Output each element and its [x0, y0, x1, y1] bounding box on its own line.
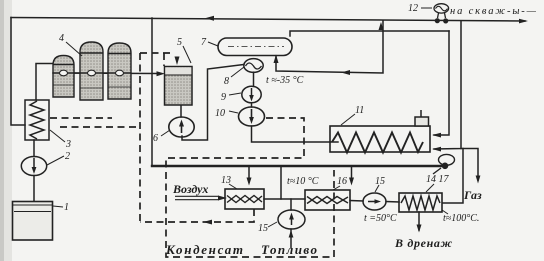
- arrow left into evaporator 11 cap level: [432, 133, 441, 138]
- svg-text:15: 15: [375, 176, 385, 187]
- wire pump 6 U-pipe up to cooler 8: [182, 65, 244, 141]
- leader line label 10: [229, 111, 238, 113]
- arrow down gas outlet: [476, 176, 481, 184]
- wire throttle 10 down and right into evaporator 11 coil: [252, 126, 339, 142]
- leader line label 9: [229, 93, 241, 95]
- wire heater 13 right side up to header: [280, 166, 282, 199]
- leader line label 5: [183, 46, 191, 63]
- adsorber 4 (small left): [53, 56, 74, 98]
- wire return line into separator 7 bottom: [276, 21, 383, 73]
- wire dashed drop onto unit 5 corner: [163, 53, 165, 66]
- leader line label 15 fuel: [268, 222, 277, 227]
- pump 2: [21, 157, 46, 176]
- wire junction to gas outlet arrow: [461, 149, 478, 181]
- arrowheads: [157, 16, 529, 238]
- arrow left into evaporator 11 right side: [432, 147, 441, 152]
- leader line label 11: [341, 114, 355, 125]
- wire dashed regeneration riser x=140: [139, 53, 141, 221]
- arrow down to drain: [417, 225, 422, 233]
- wire dashed heater 13 bottom return: [140, 209, 254, 222]
- svg-text:1: 1: [64, 202, 69, 213]
- svg-text:2: 2: [65, 151, 70, 162]
- wire fuel supply line: [290, 229, 292, 248]
- svg-text:14 17: 14 17: [426, 174, 450, 185]
- svg-text:В дренаж: В дренаж: [394, 236, 453, 250]
- leader line label 4: [66, 42, 82, 56]
- heater 13: [225, 189, 264, 209]
- svg-text:t =50°С: t =50°С: [364, 213, 397, 224]
- svg-text:3: 3: [65, 139, 71, 150]
- pump 6: [169, 117, 194, 137]
- nozzle on adsorber line (left): [60, 70, 68, 76]
- leader line label 7: [208, 42, 218, 46]
- leader line label 16: [333, 186, 340, 190]
- wire gas line overlay through adsorbers: [53, 72, 131, 74]
- arrow up into separator 7 bottom: [274, 55, 279, 64]
- arrow right air supply: [218, 196, 227, 201]
- wire regeneration header y=166: [152, 165, 441, 167]
- evaporator 11: [330, 126, 430, 153]
- leader line label 13: [229, 184, 237, 189]
- svg-text:13: 13: [221, 175, 231, 186]
- leader line t=100: [442, 210, 448, 214]
- adsorber 4 (middle): [80, 42, 103, 100]
- leader line label 1: [53, 206, 63, 207]
- throttle 9: [242, 86, 261, 103]
- svg-text:5: 5: [177, 37, 182, 48]
- wire heat exchanger 3 to pump 2: [33, 140, 35, 157]
- svg-text:8: 8: [224, 76, 229, 87]
- wire header down into heater 13: [248, 166, 250, 182]
- svg-text:Топливо: Топливо: [261, 242, 318, 257]
- leader line label 2: [47, 156, 64, 165]
- wire vertical from top line x=154 down to regeneration header: [151, 18, 153, 166]
- separator 7: [218, 38, 292, 56]
- svg-text:Газ: Газ: [463, 188, 482, 202]
- nozzle on adsorber line (middle): [88, 70, 96, 76]
- svg-text:t≈100°С.: t≈100°С.: [443, 213, 479, 224]
- leader line label 12: [421, 7, 432, 9]
- arrow up at junction x=383: [379, 22, 384, 30]
- wire fuel pump riser: [290, 199, 292, 210]
- arrow down into unit 5 top: [175, 57, 180, 66]
- wire drain line from heater 14: [418, 212, 420, 230]
- arrow left on return line: [341, 70, 350, 75]
- air supply double line: [175, 196, 219, 199]
- wire dashed link to unit 5 top: [140, 52, 172, 54]
- arrow right end of top line: [519, 19, 528, 24]
- svg-text:t ≈-35 °С: t ≈-35 °С: [266, 75, 304, 86]
- svg-text:11: 11: [355, 105, 364, 116]
- svg-text:6: 6: [153, 133, 158, 144]
- heater 16: [305, 190, 350, 210]
- wire separator 7 top to main line junction: [290, 31, 449, 36]
- leader line label 8: [231, 67, 244, 77]
- unit 5: [165, 67, 193, 106]
- arrow down into heater 16: [349, 178, 354, 186]
- tank 1: [13, 202, 53, 241]
- cap on evaporator 11: [415, 110, 429, 126]
- leader line label 6: [161, 130, 170, 136]
- svg-text:Воздух: Воздух: [172, 182, 208, 196]
- wire heater 16 to pump 15: [350, 200, 363, 203]
- wire throttle 9 to throttle 10: [251, 103, 253, 107]
- pump 15 (fuel): [278, 210, 305, 229]
- wire header down into heater 16: [351, 166, 353, 182]
- wire vertical x=449 down to evaporator 11 cap: [434, 31, 449, 135]
- wire junction down to heater 14 outlet: [443, 149, 463, 204]
- svg-text:t≈10 °С: t≈10 °С: [287, 176, 319, 187]
- heat exchanger 3: [25, 100, 49, 140]
- wire from adsorber outlet down to heat exchanger 3 top: [36, 64, 53, 101]
- svg-text:12: 12: [408, 3, 418, 14]
- cooler 8: [244, 59, 263, 73]
- wire vertical x=461 from top line down to junction: [434, 21, 461, 149]
- svg-text:9: 9: [221, 92, 226, 103]
- gauge above heater 14: [433, 154, 455, 174]
- wire cooler 8 to throttle 9: [253, 72, 255, 86]
- arrow up into fuel pump: [289, 230, 294, 238]
- nozzle on adsorber line (right): [116, 70, 124, 76]
- heater 14 17: [399, 193, 442, 212]
- arrow left on dashed return y=222: [203, 220, 212, 225]
- leader line label 15 right: [375, 185, 379, 192]
- leader line label 14 17 to box: [426, 184, 434, 192]
- wire heater 13 to heater 16: [264, 198, 305, 200]
- orifice meter 12: [434, 4, 449, 18]
- svg-text:4: 4: [59, 33, 64, 44]
- wire main top gas line to wells: [11, 18, 525, 22]
- arrow down into heater 13: [247, 178, 252, 186]
- pump 15 (condensate): [363, 193, 386, 210]
- wire dashed adsorber enclosure bottom: [60, 126, 138, 128]
- svg-text:10: 10: [215, 108, 225, 119]
- wire gas line through adsorbers to unit 5: [53, 72, 158, 75]
- adsorber 4 (right): [108, 43, 131, 99]
- svg-text:15: 15: [258, 223, 268, 234]
- leader line label 3: [50, 130, 65, 142]
- wire unit 5 to pump 6: [180, 105, 182, 117]
- wire pump 2 to tank 1: [33, 176, 35, 202]
- arrow left on top line: [205, 16, 214, 21]
- wire dashed from heat exchanger 3 right: [50, 117, 112, 119]
- wire pump 15 to heater 14: [386, 201, 399, 204]
- arrow into unit 5 from adsorbers: [157, 71, 166, 76]
- wire left boundary down to heat exchanger 3: [11, 18, 25, 126]
- svg-text:16: 16: [337, 176, 347, 187]
- throttle 10: [239, 107, 265, 126]
- wire dashed from throttle 10 to condensate box: [166, 118, 334, 257]
